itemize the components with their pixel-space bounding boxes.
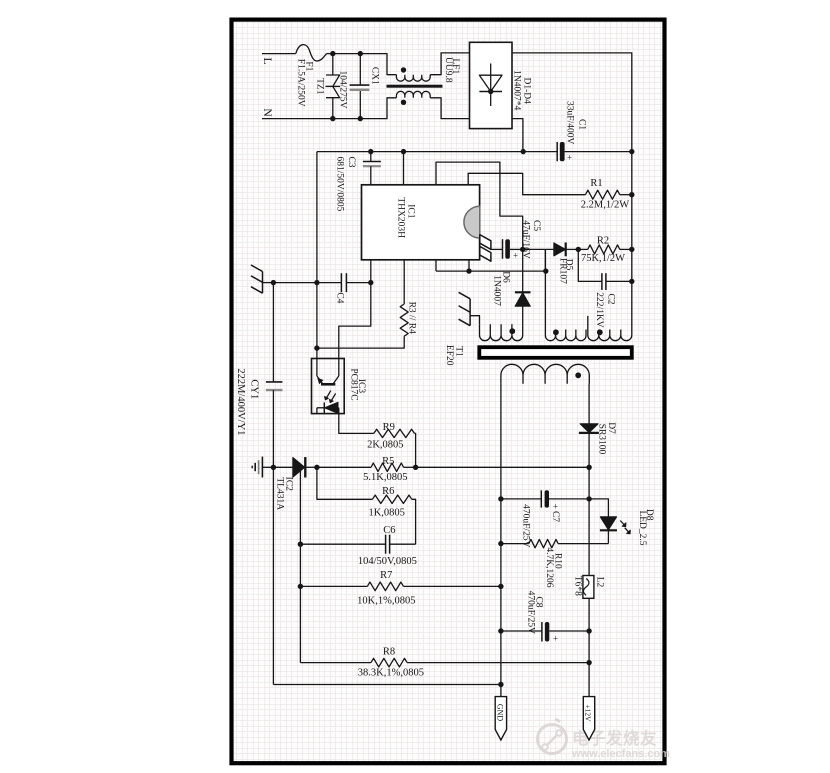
svg-text:R5: R5 (382, 456, 394, 467)
svg-text:222/1KV: 222/1KV (594, 292, 604, 328)
svg-text:F1.5A/250V: F1.5A/250V (296, 59, 306, 107)
wire Vcc sense line (314, 152, 319, 359)
resistor R3 // R4 (317, 260, 417, 348)
svg-text:1K,0805: 1K,0805 (368, 508, 404, 519)
svg-text:CY1: CY1 (248, 379, 259, 399)
diode D7 SR3100 (579, 422, 616, 499)
svg-text:D1-D4: D1-D4 (522, 78, 532, 105)
inductor L2 T6*8 (573, 499, 605, 697)
svg-text:+: + (553, 634, 558, 644)
wire D5 node to winding2 (544, 249, 546, 271)
svg-text:D7: D7 (606, 422, 616, 434)
capacitor C4 (271, 273, 374, 303)
wire GND rail (498, 467, 503, 696)
capacitor C2 222/1KV (578, 249, 634, 327)
capacitor C8 470uF/25V (501, 591, 589, 644)
wire IC1 switch pins (436, 260, 549, 274)
svg-text:R1: R1 (590, 178, 602, 189)
svg-text:C5: C5 (531, 220, 541, 231)
capacitor CX1 104/275V (338, 51, 380, 121)
svg-text:TZ1: TZ1 (315, 78, 325, 95)
svg-text:222M/400V/Y1: 222M/400V/Y1 (235, 368, 246, 435)
svg-text:1N4007: 1N4007 (492, 275, 502, 306)
svg-text:2K,0805: 2K,0805 (367, 440, 403, 451)
transformer T1 EF20 core (444, 345, 632, 366)
op-amp U1 IC1 THX203H (362, 185, 491, 261)
svg-text:5.1K,0805: 5.1K,0805 (363, 472, 407, 483)
wire IC1 pin2 to opto (339, 260, 371, 359)
resistor R10 4.7K,1206 (501, 539, 609, 587)
svg-text:FR107: FR107 (558, 258, 568, 284)
capacitor C7 470uF/25V (501, 490, 592, 547)
varistor TZ1 (315, 51, 341, 121)
wire bridge- to rail (512, 119, 526, 155)
capacitor C3 681/50V/0805 (335, 152, 381, 212)
svg-text:C4: C4 (335, 292, 345, 303)
capacitor CY1 222M/400V/Y1 (235, 283, 283, 685)
resistor R2 75K,1/2W (578, 236, 634, 265)
svg-text:C3: C3 (346, 156, 356, 167)
svg-text:R7: R7 (380, 570, 392, 581)
ground input filter (earth) (251, 265, 273, 293)
svg-text:4.7K,1206: 4.7K,1206 (544, 547, 554, 587)
svg-text:T6*8: T6*8 (573, 576, 583, 596)
svg-text:+: + (567, 153, 572, 163)
svg-text:38.3K,1%,0805: 38.3K,1%,0805 (358, 668, 424, 679)
transformer T1 winding 3 (primary main) (588, 316, 632, 341)
svg-text:+: + (513, 251, 518, 261)
diode D6 1N4007 (492, 249, 531, 324)
svg-text:LED_2.5: LED_2.5 (637, 510, 647, 545)
wire TL431 ref (299, 471, 301, 663)
svg-text:www.elecfans.com: www.elecfans.com (571, 748, 670, 760)
wire DC rail (317, 149, 635, 154)
resistor R7 10K,1%,0805 (298, 570, 504, 607)
svg-text:L2: L2 (595, 577, 605, 588)
capacitor C1 33uF/400V (557, 101, 586, 162)
svg-text:PC817C: PC817C (348, 368, 358, 400)
node N (neutral input) (261, 108, 360, 118)
ground secondary (252, 457, 273, 478)
svg-text:33uF/400V: 33uF/400V (565, 101, 575, 144)
bridge rectifier D1-D4 (470, 42, 532, 128)
transistor Q IC3 PC817C (312, 359, 366, 414)
resistor R6 1K,0805 (317, 467, 416, 544)
resistor R9 2K,0805 (339, 414, 416, 468)
ground primary (earth) (459, 292, 480, 325)
svg-text:R6: R6 (382, 486, 394, 497)
diode D5 FR107 (523, 243, 581, 285)
svg-text:R2: R2 (597, 236, 609, 247)
transformer T1 winding 2 (clamp) (545, 249, 586, 340)
capacitor C6 104/50V,0805 (298, 525, 417, 567)
svg-text:GND: GND (495, 704, 504, 722)
wire feedback tap (413, 465, 589, 470)
svg-text:470uF/25V: 470uF/25V (525, 591, 535, 634)
svg-text:+12V: +12V (583, 704, 592, 722)
wire bottom rail (273, 684, 501, 686)
wire HV bus (631, 152, 633, 330)
node +12V (power flag) (583, 697, 594, 740)
svg-text:2.2M,1/2W: 2.2M,1/2W (581, 200, 630, 211)
svg-text:10K,1%,0805: 10K,1%,0805 (357, 596, 415, 607)
svg-text:C6: C6 (383, 525, 395, 536)
svg-text:75K,1/2W: 75K,1/2W (581, 253, 625, 264)
svg-text:UU9.8: UU9.8 (443, 57, 453, 83)
svg-text:470uF/25V: 470uF/25V (521, 504, 531, 547)
svg-text:R9: R9 (383, 422, 395, 433)
svg-text:R3 // R4: R3 // R4 (407, 302, 417, 334)
svg-text:C7: C7 (550, 511, 560, 522)
LED D8 LED_2.5 (589, 499, 654, 546)
svg-text:SR3100: SR3100 (597, 424, 607, 455)
watermark elecfans logo (538, 719, 671, 760)
svg-text:1N4007*4: 1N4007*4 (512, 70, 522, 110)
node GND (power flag) (495, 697, 506, 740)
svg-text:104/50V,0805: 104/50V,0805 (358, 556, 417, 567)
svg-text:IC1: IC1 (405, 204, 415, 219)
resistor R5 5.1K,0805 (317, 456, 416, 483)
transformer T1 secondary winding (501, 364, 589, 467)
svg-text:TL431A: TL431A (274, 477, 284, 510)
svg-text:R8: R8 (383, 647, 395, 658)
wire bridge+ to bus (512, 53, 632, 152)
transformer T1 winding 1 (primary left) (480, 324, 523, 340)
svg-text:CX1: CX1 (370, 67, 380, 85)
svg-text:104/275V: 104/275V (338, 71, 348, 109)
fuse F1 (296, 45, 361, 107)
common-mode choke LF1 (360, 53, 469, 119)
svg-text:N: N (261, 108, 273, 117)
svg-text:L: L (261, 57, 273, 64)
svg-text:681/50V/0805: 681/50V/0805 (335, 157, 345, 212)
svg-text:THX203H: THX203H (395, 197, 405, 238)
capacitor C5 47uF/16V (491, 220, 541, 260)
wire IC1 pin4 to C5/D5 node (436, 162, 523, 249)
resistor R8 38.3K,1%,0805 (300, 647, 591, 679)
svg-text:C2: C2 (606, 293, 616, 304)
schematic sheet frame and grid (232, 20, 665, 764)
diode IC2 TL431A (273, 457, 319, 510)
svg-text:47uF/16V: 47uF/16V (520, 220, 530, 259)
resistor R1 2.2M,1/2W (468, 173, 634, 210)
svg-text:EF20: EF20 (444, 345, 454, 366)
node L (live input) (261, 54, 296, 65)
svg-text:C1: C1 (576, 119, 586, 130)
wire IC1 pin3 to rail (403, 152, 405, 185)
